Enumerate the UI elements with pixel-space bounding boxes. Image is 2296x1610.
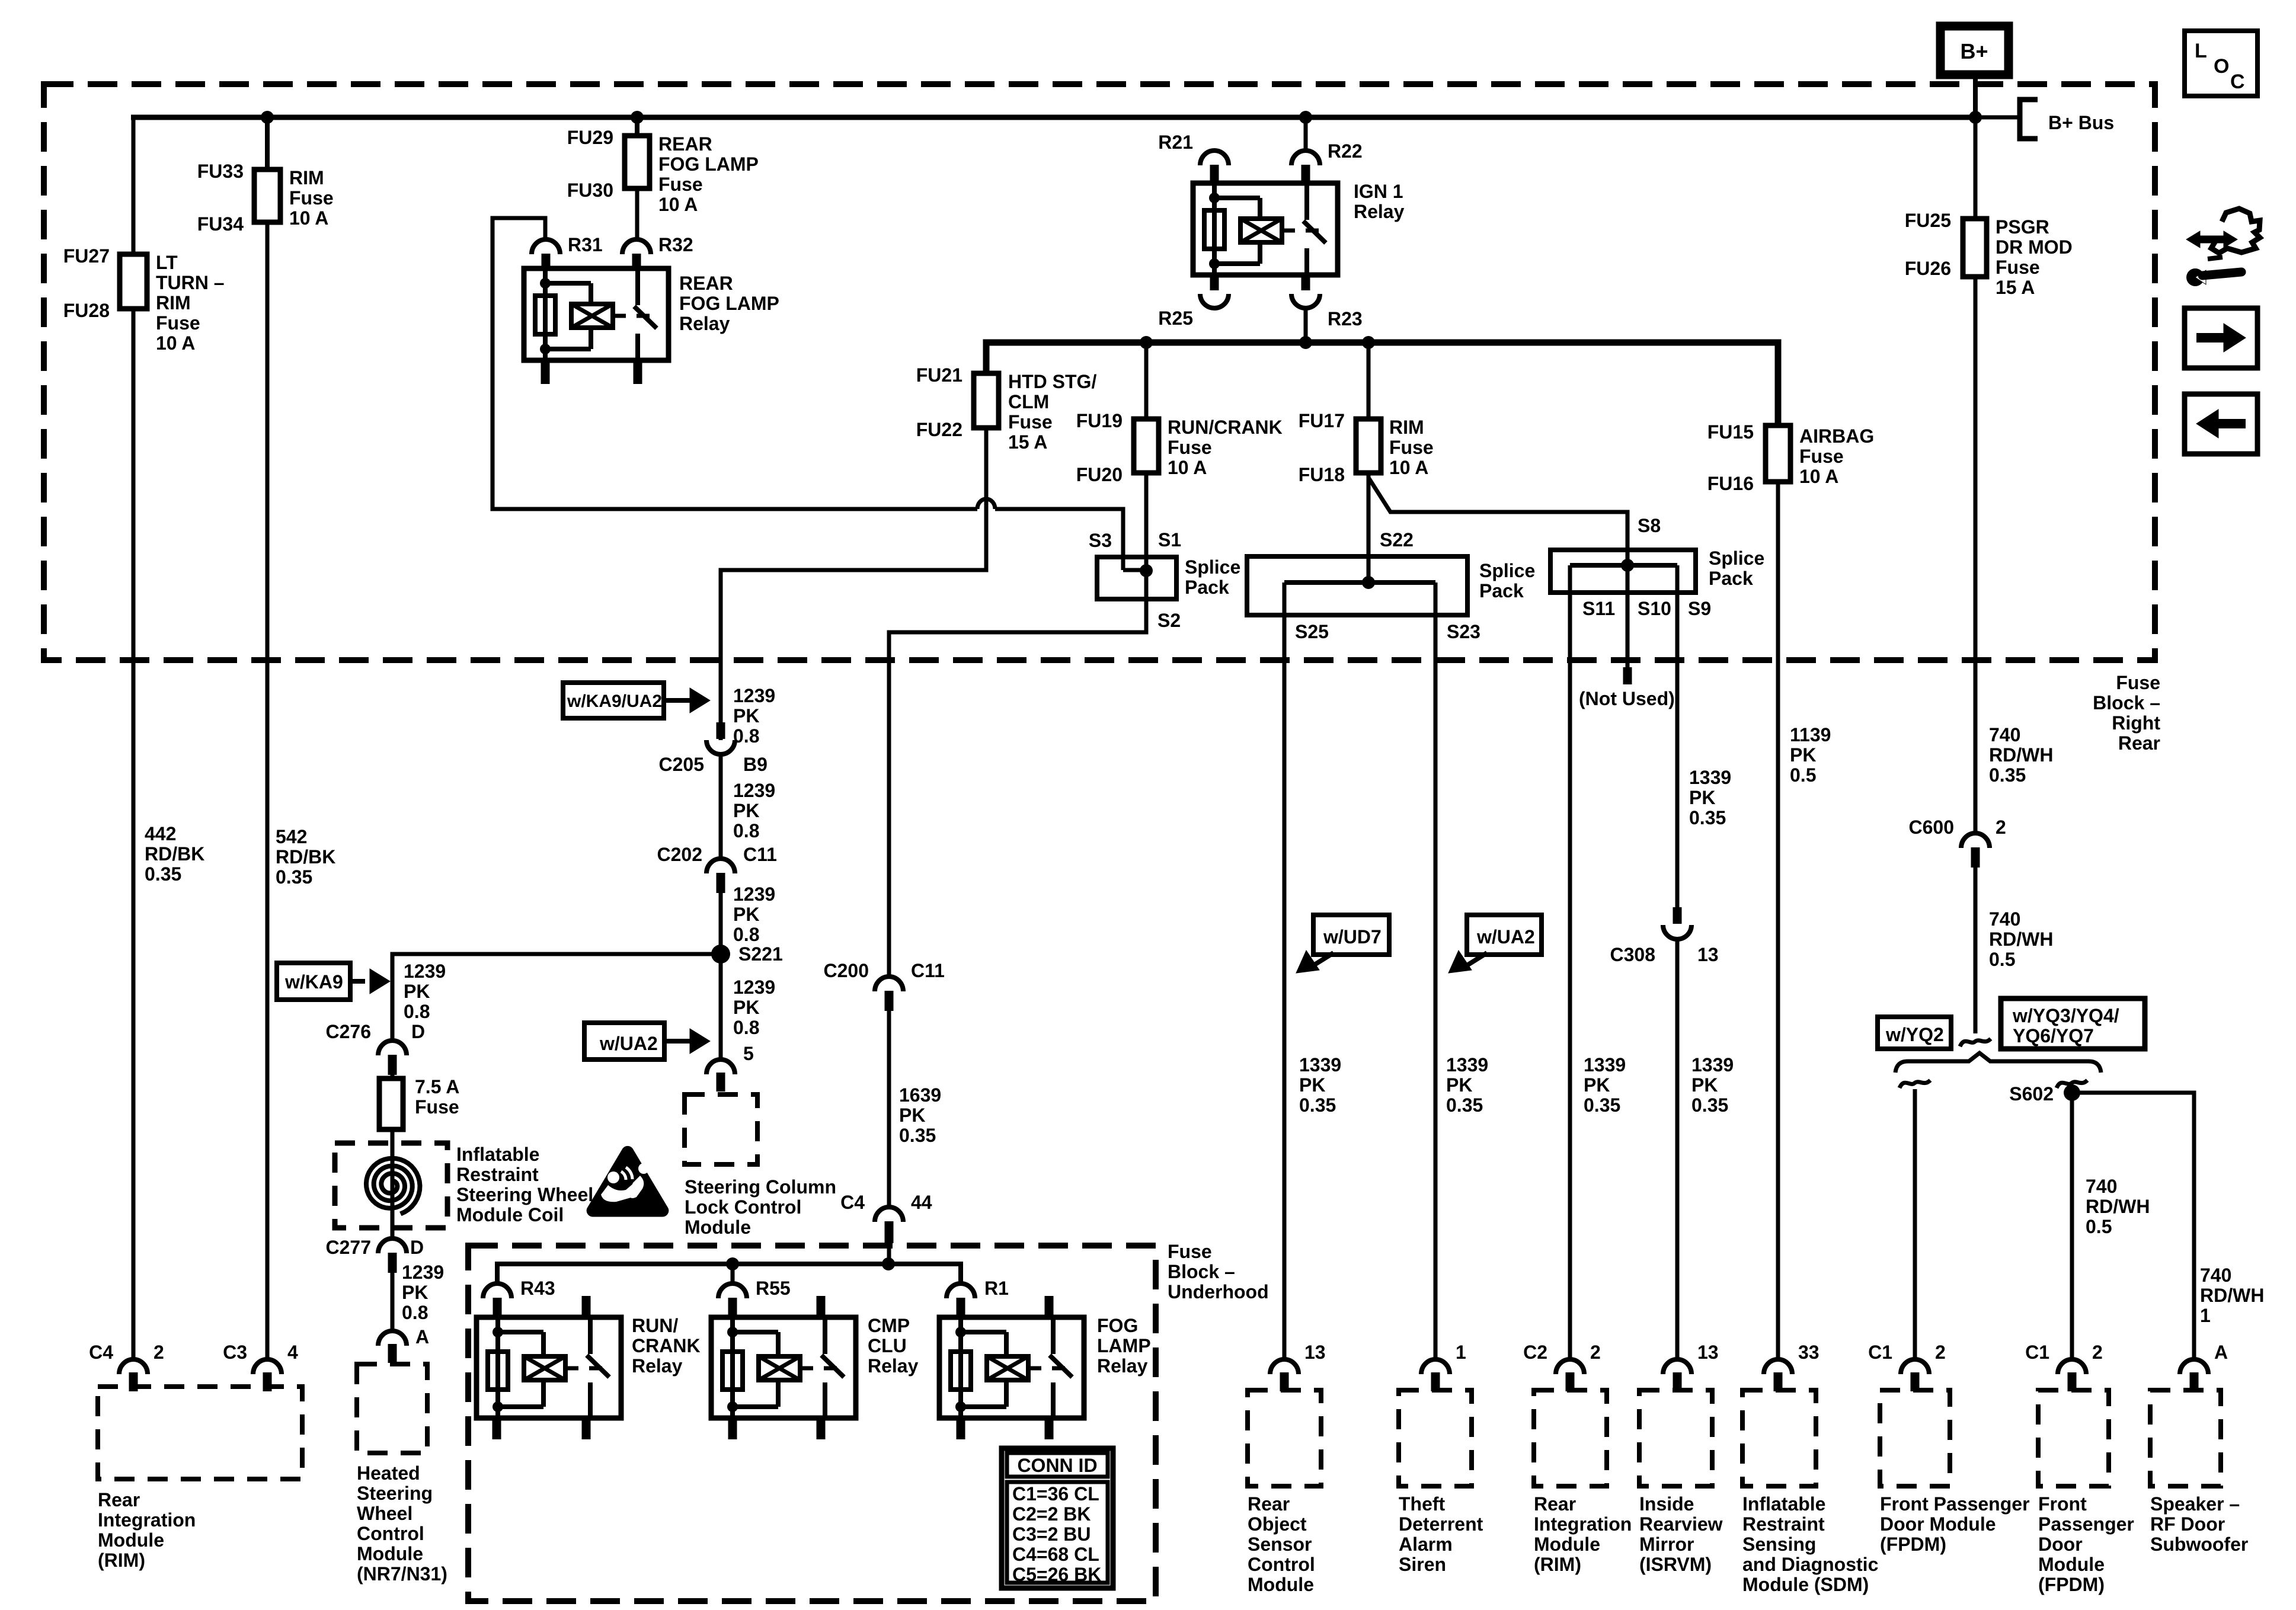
S25 wire to Rear Object Sensor module: [1283, 582, 1287, 1359]
svg-text:S22: S22: [1380, 529, 1414, 550]
svg-text:Rear: Rear: [2118, 732, 2160, 754]
svg-text:1: 1: [1456, 1342, 1466, 1363]
svg-text:RD/WH: RD/WH: [2200, 1285, 2264, 1306]
svg-text:4: 4: [287, 1342, 298, 1363]
svg-text:Module: Module: [1248, 1574, 1314, 1595]
splice pack 2 internal bar: [1284, 580, 1435, 585]
svg-text:FU18: FU18: [1299, 464, 1345, 485]
svg-text:0.5: 0.5: [2086, 1216, 2112, 1237]
svg-text:YQ6/YQ7: YQ6/YQ7: [2013, 1025, 2094, 1046]
svg-text:(FPDM): (FPDM): [2038, 1574, 2105, 1595]
svg-text:Door: Door: [2038, 1534, 2083, 1555]
svg-text:TURN –: TURN –: [156, 272, 225, 293]
svg-text:PK: PK: [402, 1282, 428, 1303]
svg-text:Module: Module: [685, 1217, 751, 1238]
relay terminal R22 connector: [1291, 151, 1320, 165]
fuse 7.5 A: [379, 1078, 403, 1129]
svg-text:PK: PK: [1446, 1074, 1472, 1096]
svg-text:RIM: RIM: [156, 292, 191, 313]
svg-text:1: 1: [2200, 1305, 2211, 1326]
svg-text:Sensor: Sensor: [1248, 1534, 1312, 1555]
svg-text:(RIM): (RIM): [1534, 1554, 1581, 1575]
relay terminal R25 connector (no wire): [1210, 275, 1219, 290]
svg-text:Rear: Rear: [1534, 1493, 1576, 1515]
wire FU16 down to SDM: [1776, 482, 1780, 1359]
svg-text:Speaker –: Speaker –: [2150, 1493, 2240, 1515]
svg-text:FU34: FU34: [197, 213, 244, 235]
S23 wire to Theft Deterrent siren: [1434, 582, 1438, 1359]
FPDM2 branch squiggle: [2057, 1080, 2087, 1088]
svg-text:0.35: 0.35: [1446, 1094, 1483, 1116]
svg-text:S3: S3: [1089, 530, 1112, 551]
svg-text:13: 13: [1304, 1342, 1326, 1363]
svg-text:(FPDM): (FPDM): [1880, 1534, 1946, 1555]
right arrow box: [2185, 308, 2257, 368]
wire bus to R22: [1304, 117, 1308, 153]
w/KA9 option box: [277, 963, 350, 1000]
splice pack 1 box: [1097, 557, 1176, 599]
svg-text:0.35: 0.35: [1584, 1094, 1620, 1116]
svg-text:FU17: FU17: [1299, 410, 1345, 431]
option squiggle main: [1960, 1039, 1991, 1046]
svg-text:FOG LAMP: FOG LAMP: [679, 293, 779, 314]
svg-text:w/KA9/UA2: w/KA9/UA2: [567, 692, 662, 711]
svg-text:R31: R31: [568, 234, 603, 255]
wire S602 to speaker: [2072, 1093, 2194, 1359]
wire bus to FU19: [1144, 343, 1149, 419]
svg-text:PK: PK: [899, 1105, 925, 1126]
svg-text:33: 33: [1798, 1342, 1819, 1363]
Rear Integration Module module box: [1534, 1390, 1607, 1486]
connector to steering column lock module: [706, 1060, 735, 1074]
svg-text:D: D: [410, 1237, 424, 1258]
connector C276 D: [378, 1041, 407, 1055]
wire C600 down to brace: [1974, 866, 1978, 1033]
connector Inside Rearview Mirror pin 13: [1663, 1359, 1691, 1374]
svg-text:Splice: Splice: [1479, 560, 1535, 581]
svg-text:0.35: 0.35: [899, 1125, 936, 1146]
svg-text:CLU: CLU: [868, 1335, 907, 1356]
svg-text:C11: C11: [743, 844, 777, 865]
svg-text:PK: PK: [1689, 787, 1715, 808]
svg-text:Integration: Integration: [1534, 1513, 1632, 1535]
svg-text:Restraint: Restraint: [456, 1164, 539, 1185]
crossover hop over FU22 wire: [977, 499, 995, 509]
R43 switch stub above box: [582, 1296, 591, 1317]
svg-text:FU30: FU30: [567, 180, 613, 201]
FPDM1 branch squiggle: [1900, 1080, 1930, 1088]
svg-text:0.35: 0.35: [145, 863, 181, 885]
svg-text:B9: B9: [743, 754, 768, 775]
connector Inflatable Restraint SDM pin 33: [1764, 1359, 1792, 1374]
svg-text:Siren: Siren: [1399, 1554, 1446, 1575]
svg-text:C5=26 BK: C5=26 BK: [1012, 1564, 1101, 1585]
w/KA9/UA2 option box: [563, 683, 664, 718]
svg-text:0.8: 0.8: [733, 924, 759, 945]
svg-text:PK: PK: [733, 705, 759, 726]
Rear Object Sensor Control Module module box: [1248, 1390, 1321, 1486]
relay terminal R43 connector: [483, 1283, 511, 1298]
svg-text:Fuse: Fuse: [1168, 1241, 1212, 1262]
Inside Rearview Mirror module box: [1639, 1390, 1712, 1486]
svg-text:FU29: FU29: [567, 127, 613, 148]
svg-text:Rear: Rear: [98, 1489, 140, 1510]
svg-text:RIM: RIM: [1389, 417, 1424, 438]
hood open / service icon: [2211, 209, 2260, 253]
svg-text:PK: PK: [1299, 1074, 1325, 1096]
fuse FU27/FU28 LT TURN-RIM: [120, 254, 147, 309]
svg-text:R22: R22: [1328, 140, 1363, 162]
fuse FU33/FU34 RIM: [254, 169, 280, 222]
svg-text:740: 740: [2200, 1265, 2231, 1286]
svg-text:44: 44: [911, 1192, 932, 1213]
svg-text:1239: 1239: [402, 1262, 444, 1283]
relay bottom stubs: [541, 360, 550, 384]
svg-text:FU15: FU15: [1707, 421, 1754, 443]
B+ Bus bracket: [2020, 100, 2038, 139]
w/UD7 arrow: [1315, 953, 1334, 965]
svg-text:FU26: FU26: [1905, 258, 1951, 279]
svg-text:w/UA2: w/UA2: [599, 1033, 658, 1054]
svg-text:RF Door: RF Door: [2150, 1513, 2225, 1535]
wire bus to FU29: [635, 117, 639, 136]
svg-text:Integration: Integration: [98, 1509, 196, 1531]
svg-text:740: 740: [1989, 908, 2020, 930]
svg-text:Relay: Relay: [679, 313, 730, 334]
svg-text:Steering Wheel: Steering Wheel: [456, 1184, 593, 1205]
svg-text:15 A: 15 A: [1008, 431, 1047, 453]
svg-text:FU27: FU27: [63, 245, 110, 267]
svg-text:Restraint: Restraint: [1742, 1513, 1825, 1535]
svg-text:10 A: 10 A: [1389, 457, 1428, 478]
svg-text:C200: C200: [824, 960, 869, 981]
svg-text:15 A: 15 A: [1996, 277, 2035, 298]
svg-text:0.8: 0.8: [404, 1001, 430, 1022]
svg-text:0.5: 0.5: [1790, 764, 1816, 786]
Inflatable Restraint Steering Wheel Module Coil dashed box: [335, 1143, 447, 1228]
svg-text:C277: C277: [326, 1237, 372, 1258]
svg-text:Steering Column: Steering Column: [685, 1176, 836, 1198]
svg-text:R25: R25: [1158, 308, 1193, 329]
svg-text:B+: B+: [1960, 39, 1988, 63]
w/UD7 option box: [1313, 915, 1389, 955]
svg-text:C600: C600: [1909, 817, 1955, 838]
fuse FU21/FU22 HTD STG/CLM: [974, 373, 999, 428]
connector Speaker RF Door Subwoofer pin A: [2180, 1359, 2208, 1374]
option brace: [1895, 1053, 2101, 1073]
connector C308 13: [1673, 907, 1682, 924]
B+ Bus top bus wire: [131, 115, 1975, 120]
svg-text:S25: S25: [1295, 621, 1329, 642]
w/KA9 arrow: [350, 979, 365, 984]
svg-text:C1: C1: [2025, 1342, 2049, 1363]
svg-text:w/KA9: w/KA9: [284, 971, 343, 993]
wire C277 to pin A: [391, 1273, 395, 1331]
steering wheel module coil spiral: [366, 1158, 420, 1214]
svg-text:RUN/: RUN/: [632, 1315, 678, 1336]
Fuse Block - Right Rear dashed outline: [44, 84, 2155, 660]
wire to R55: [731, 1264, 735, 1285]
svg-text:1339: 1339: [1446, 1054, 1488, 1076]
connector Theft Deterrent Alarm Siren pin 1: [1421, 1359, 1450, 1374]
wire C205 to C202: [719, 754, 723, 859]
svg-text:Module: Module: [1534, 1534, 1600, 1555]
svg-text:Relay: Relay: [868, 1355, 919, 1377]
Inflatable Restraint SDM module box: [1742, 1390, 1816, 1486]
svg-text:Sensing: Sensing: [1742, 1534, 1816, 1555]
connector C200 C11: [875, 977, 903, 991]
svg-text:Passenger: Passenger: [2038, 1513, 2134, 1535]
svg-text:0.35: 0.35: [276, 866, 312, 888]
svg-text:PK: PK: [1790, 744, 1816, 766]
wire bus to FU27: [132, 117, 136, 254]
w/UA2 arrow: [664, 1039, 692, 1044]
wire FU18 to splice S22 and S8 branch: [1367, 473, 1371, 582]
svg-text:Module Coil: Module Coil: [456, 1204, 564, 1225]
w/UA2 option box: [584, 1023, 664, 1060]
splice pack 1 internal wires: [1123, 568, 1149, 572]
svg-text:Lock Control: Lock Control: [685, 1196, 801, 1218]
svg-text:C3: C3: [223, 1342, 247, 1363]
svg-text:C4: C4: [89, 1342, 113, 1363]
wire FU22 down to 1239 wire: [721, 428, 986, 740]
svg-text:Alarm: Alarm: [1399, 1534, 1453, 1555]
svg-text:10 A: 10 A: [156, 332, 195, 354]
wire R31 loop to splice S3: [493, 218, 977, 509]
relay terminal R31 connector: [532, 239, 560, 254]
svg-text:1339: 1339: [1691, 1054, 1734, 1076]
svg-text:PK: PK: [1584, 1074, 1610, 1096]
Speaker RF Door Subwoofer module box: [2150, 1390, 2221, 1486]
svg-text:542: 542: [276, 826, 307, 847]
svg-text:S10: S10: [1638, 598, 1671, 619]
svg-text:Underhood: Underhood: [1168, 1281, 1269, 1302]
Steering Column Lock Control Module box: [685, 1094, 757, 1164]
connector C4 44: [875, 1207, 903, 1222]
wire bus to FU25: [1974, 117, 1978, 219]
svg-text:C1: C1: [1868, 1342, 1892, 1363]
svg-text:C2=2 BK: C2=2 BK: [1012, 1503, 1091, 1525]
svg-text:740: 740: [1989, 724, 2020, 745]
fuse FU25/FU26 PSGR DR MOD: [1963, 219, 1987, 277]
wire C202 to S221: [719, 889, 723, 954]
connector C277 D: [378, 1238, 407, 1253]
left arrow box: [2185, 394, 2257, 454]
wire S221 branch to C276: [392, 954, 721, 1041]
wire bus to FU17: [1367, 343, 1371, 419]
svg-text:Door Module: Door Module: [1880, 1513, 1996, 1535]
svg-text:Mirror: Mirror: [1639, 1534, 1694, 1555]
svg-text:O: O: [2214, 55, 2229, 78]
relay IGN 1 internals: [1212, 183, 1217, 275]
wire C200 to C4: [887, 1007, 891, 1207]
svg-text:Fuse: Fuse: [415, 1096, 459, 1118]
svg-text:7.5 A: 7.5 A: [415, 1076, 459, 1097]
relay REAR FOG LAMP internals: [543, 268, 548, 360]
svg-text:w/UA2: w/UA2: [1476, 926, 1535, 948]
connector Front Passenger Door Module 2 pin 2: [2058, 1359, 2086, 1374]
svg-text:Fuse: Fuse: [1799, 446, 1844, 467]
svg-text:FU16: FU16: [1707, 473, 1754, 494]
wire to FPDM2: [2070, 1089, 2074, 1359]
svg-text:LAMP: LAMP: [1097, 1335, 1151, 1356]
R1 bottom stubs: [957, 1418, 965, 1439]
splice S602: [2064, 1084, 2080, 1101]
svg-text:740: 740: [2086, 1176, 2117, 1197]
relay RUN/CRANK internals: [495, 1317, 500, 1418]
svg-text:Splice: Splice: [1709, 548, 1764, 569]
svg-text:IGN 1: IGN 1: [1354, 181, 1403, 202]
svg-text:0.35: 0.35: [1689, 807, 1726, 828]
splice S221: [711, 945, 730, 964]
svg-text:(RIM): (RIM): [98, 1550, 145, 1571]
connector Rear Object Sensor Control Module pin 13: [1270, 1359, 1299, 1374]
connector pin A: [378, 1331, 407, 1346]
svg-text:Fuse: Fuse: [1168, 437, 1212, 458]
wire FU26 down to C600: [1974, 277, 1978, 836]
svg-text:1239: 1239: [733, 884, 775, 905]
svg-text:R21: R21: [1158, 132, 1193, 153]
svg-text:AIRBAG: AIRBAG: [1799, 425, 1874, 447]
svg-text:Block –: Block –: [1168, 1261, 1235, 1282]
svg-text:0.8: 0.8: [733, 820, 759, 841]
fuse FU17/FU18 RIM: [1356, 419, 1381, 473]
svg-text:0.8: 0.8: [733, 725, 759, 747]
fuse FU15/FU16 AIRBAG: [1766, 425, 1790, 482]
svg-text:FOG: FOG: [1097, 1315, 1138, 1336]
svg-text:Fuse: Fuse: [1996, 257, 2040, 278]
svg-text:10 A: 10 A: [1799, 466, 1838, 487]
R1 switch stub above box: [1045, 1296, 1054, 1317]
svg-text:0.35: 0.35: [1691, 1094, 1728, 1116]
svg-text:Rearview: Rearview: [1639, 1513, 1723, 1535]
wire FU20 to splice S1: [1144, 473, 1149, 632]
svg-text:DR MOD: DR MOD: [1996, 236, 2073, 258]
svg-text:B+ Bus: B+ Bus: [2048, 112, 2114, 133]
w/YQ2 option box: [1878, 1017, 1951, 1049]
svg-text:RD/BK: RD/BK: [145, 843, 204, 865]
wire fuse to coil: [391, 1129, 395, 1238]
Rear Integration Module (RIM) box left: [98, 1387, 302, 1479]
svg-text:FU21: FU21: [916, 364, 962, 386]
svg-text:S23: S23: [1447, 621, 1480, 642]
svg-text:Fuse: Fuse: [658, 174, 703, 195]
svg-text:C276: C276: [326, 1021, 372, 1042]
connector RIM C4 pin 2: [119, 1359, 148, 1374]
svg-text:PSGR: PSGR: [1996, 216, 2049, 238]
svg-text:Relay: Relay: [632, 1355, 683, 1377]
S2 wire to 1639 feed: [889, 571, 1146, 977]
CONN ID table: [1002, 1448, 1113, 1588]
svg-text:Fuse: Fuse: [2116, 672, 2160, 693]
svg-text:R1: R1: [984, 1278, 1009, 1299]
svg-text:2: 2: [2092, 1342, 2103, 1363]
svg-text:HTD STG/: HTD STG/: [1008, 371, 1096, 392]
connector C202 C11: [706, 859, 735, 873]
wire R23 to ignition bus: [1304, 308, 1308, 343]
SIR caution triangle icon: [587, 1146, 669, 1217]
svg-text:1339: 1339: [1689, 767, 1731, 788]
svg-text:Fuse: Fuse: [1008, 411, 1053, 433]
relay terminal R1 connector: [946, 1283, 975, 1298]
svg-text:FU25: FU25: [1905, 210, 1951, 231]
svg-text:FU20: FU20: [1076, 464, 1123, 485]
svg-text:10 A: 10 A: [658, 194, 698, 215]
relay FOG LAMP box: [939, 1317, 1084, 1418]
svg-text:10 A: 10 A: [1168, 457, 1207, 478]
svg-text:Fuse: Fuse: [289, 187, 334, 209]
svg-text:C11: C11: [911, 960, 945, 981]
svg-text:Pack: Pack: [1709, 568, 1753, 589]
R55 switch stub above box: [817, 1296, 826, 1317]
w/UA2 option box 2: [1467, 915, 1542, 955]
svg-text:S602: S602: [2009, 1083, 2054, 1105]
R43 bottom stubs: [493, 1418, 501, 1439]
svg-text:Fuse: Fuse: [1389, 437, 1434, 458]
svg-text:442: 442: [145, 823, 176, 844]
svg-text:Object: Object: [1248, 1513, 1307, 1535]
underhood relay feed bus: [497, 1264, 961, 1283]
svg-text:0.5: 0.5: [1989, 949, 2015, 970]
relay FOG LAMP internals: [958, 1317, 963, 1418]
svg-text:C1=36 CL: C1=36 CL: [1012, 1483, 1099, 1505]
svg-text:Rear: Rear: [1248, 1493, 1290, 1515]
svg-text:RD/WH: RD/WH: [1989, 929, 2053, 950]
svg-text:R55: R55: [756, 1278, 791, 1299]
svg-text:1339: 1339: [1584, 1054, 1626, 1076]
Fuse Block - Underhood dashed outline: [468, 1246, 1156, 1601]
svg-text:PK: PK: [404, 981, 430, 1002]
svg-text:PK: PK: [733, 800, 759, 821]
svg-text:FU19: FU19: [1076, 410, 1123, 431]
svg-text:Inflatable: Inflatable: [456, 1144, 539, 1165]
svg-text:FU22: FU22: [916, 419, 962, 440]
svg-text:Module: Module: [357, 1543, 423, 1564]
svg-text:R43: R43: [520, 1278, 555, 1299]
relay terminal R32 connector: [622, 239, 651, 254]
ignition feed bus: [986, 343, 1778, 425]
svg-text:CONN ID: CONN ID: [1017, 1455, 1097, 1476]
svg-text:FOG LAMP: FOG LAMP: [658, 153, 759, 175]
wire bus to FU33: [265, 117, 270, 169]
svg-text:w/UD7: w/UD7: [1323, 926, 1382, 948]
svg-text:Heated: Heated: [357, 1462, 420, 1484]
svg-text:Module: Module: [98, 1529, 164, 1551]
wire S221 down to module: [719, 954, 723, 1060]
svg-text:CLM: CLM: [1008, 391, 1049, 412]
w/UA2 arrow 2: [1468, 953, 1487, 965]
svg-text:Front Passenger: Front Passenger: [1880, 1493, 2030, 1515]
wire FU34 down to RIM module: [266, 222, 270, 1359]
svg-text:FU28: FU28: [63, 300, 110, 321]
Front Passenger Door Module 1 module box: [1880, 1390, 1950, 1486]
svg-text:13: 13: [1697, 944, 1719, 965]
connector RIM C3 pin 4: [253, 1359, 282, 1374]
svg-text:Module (SDM): Module (SDM): [1742, 1574, 1869, 1595]
svg-text:0.8: 0.8: [733, 1017, 759, 1038]
svg-text:CRANK: CRANK: [632, 1335, 701, 1356]
svg-text:Relay: Relay: [1097, 1355, 1148, 1377]
B+ power symbol: [1940, 26, 2009, 75]
Heated Steering Wheel Control Module box: [357, 1364, 427, 1453]
svg-text:REAR: REAR: [679, 273, 733, 294]
svg-text:PK: PK: [1691, 1074, 1718, 1096]
wire FU30 to R32: [635, 188, 639, 239]
svg-text:C2: C2: [1523, 1342, 1547, 1363]
svg-text:A: A: [415, 1326, 429, 1347]
svg-text:Block –: Block –: [2093, 692, 2160, 713]
svg-text:FU33: FU33: [197, 161, 244, 182]
